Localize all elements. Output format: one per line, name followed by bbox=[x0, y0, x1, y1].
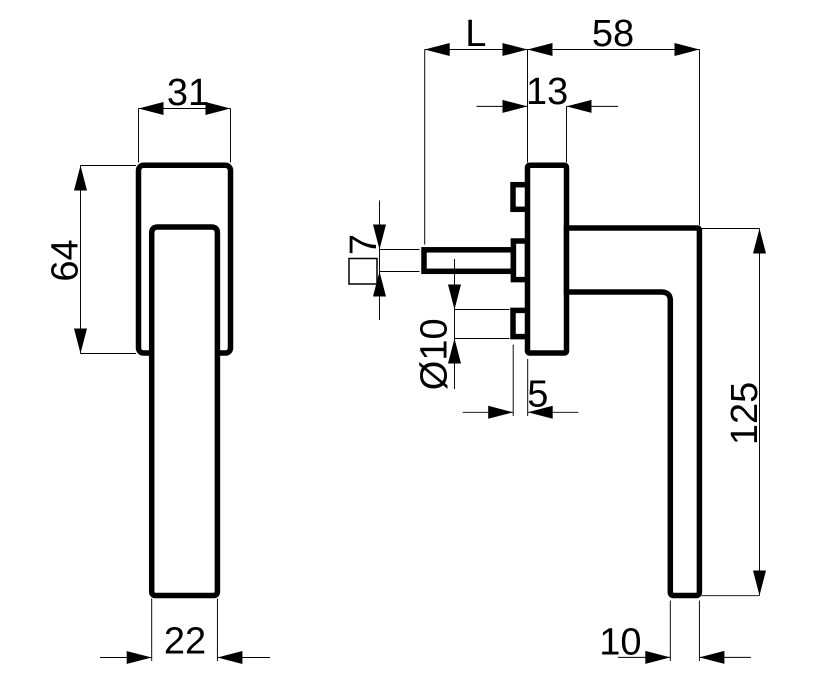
dim 10: left arrowhead bbox=[645, 651, 670, 664]
svg-text:58: 58 bbox=[592, 13, 634, 55]
dim 64: dimension line bbox=[80, 166, 82, 354]
dim 31: left extension line bbox=[138, 109, 140, 163]
dim Ø10: bottom arrowhead bbox=[448, 339, 461, 364]
dim 58: right arrowhead bbox=[675, 43, 700, 56]
svg-text:5: 5 bbox=[527, 374, 548, 416]
dim 5: right tail line bbox=[528, 411, 579, 413]
dim Ø10: dimension line vertical bbox=[454, 259, 456, 389]
svg-text:31: 31 bbox=[167, 72, 209, 114]
svg-text:L: L bbox=[465, 13, 486, 55]
dim 22: left tail line bbox=[100, 657, 152, 659]
svg-text:22: 22 bbox=[164, 621, 206, 663]
dim 22: right arrowhead bbox=[217, 651, 242, 664]
dim 64: bottom arrowhead bbox=[74, 329, 87, 354]
front view: rosette outer plate bbox=[139, 165, 231, 353]
side view: spindle bushing block bbox=[513, 241, 527, 280]
dim 22: right tail line bbox=[217, 657, 270, 659]
svg-text:7: 7 bbox=[343, 234, 385, 255]
dim 125: top extension line bbox=[702, 228, 760, 230]
dim 7: bottom arrowhead bbox=[373, 272, 386, 297]
dim 125: bottom arrowhead bbox=[753, 571, 766, 596]
dim 125: top arrowhead bbox=[753, 229, 766, 254]
dim 31: left arrowhead bbox=[139, 102, 164, 115]
dim 22: right extension line bbox=[216, 599, 218, 662]
dim 7: top extension line bbox=[380, 249, 420, 251]
dim 64: top extension line bbox=[81, 165, 137, 167]
svg-text:125: 125 bbox=[724, 382, 766, 445]
dim L: left arrowhead bbox=[425, 43, 450, 56]
dim L: right arrowhead bbox=[503, 43, 528, 56]
dim 5: left arrowhead bbox=[488, 406, 513, 419]
dim L/58/13: shared extension line at plate face bbox=[527, 50, 529, 163]
dim 5: left tail line bbox=[463, 411, 514, 413]
dim 5: right extension line bbox=[527, 359, 529, 416]
dim 7: dimension line vertical bbox=[379, 201, 381, 321]
dim Ø10: top extension line bbox=[455, 309, 510, 311]
dim 125: bottom extension line bbox=[702, 595, 760, 597]
side view: square spindle shaft bbox=[424, 250, 513, 271]
dim 10: right arrowhead bbox=[699, 651, 724, 664]
side view: bottom fixing tab bbox=[513, 310, 528, 336]
dim 64: top arrowhead bbox=[74, 166, 87, 191]
svg-text:13: 13 bbox=[526, 71, 568, 113]
dim 125: dimension line bbox=[759, 229, 761, 596]
dim 31: right arrowhead bbox=[206, 102, 231, 115]
dim 31: dimension line bbox=[139, 108, 231, 110]
dim Ø10: bottom extension line bbox=[455, 338, 510, 340]
dim 10: right tail line bbox=[699, 656, 751, 658]
dim 22: left extension line bbox=[151, 599, 153, 662]
dim 13: right arrowhead bbox=[567, 100, 592, 113]
dim 64: bottom extension line bbox=[81, 353, 137, 355]
dim 13: left tail line bbox=[477, 105, 528, 107]
dim Ø10: top arrowhead bbox=[448, 285, 461, 310]
dim 5: left extension line bbox=[512, 345, 514, 416]
dim 13: right extension line bbox=[566, 106, 568, 162]
dim L/58: shared dimension line bbox=[425, 49, 700, 51]
dim 31: right extension line bbox=[230, 109, 232, 163]
svg-text:Ø10: Ø10 bbox=[414, 318, 456, 390]
dim 13: left arrowhead bbox=[503, 100, 528, 113]
dim 22: left arrowhead bbox=[127, 651, 152, 664]
dim 13: right tail line bbox=[567, 105, 619, 107]
front view: handle grip bar bbox=[152, 227, 218, 596]
square-section symbol next to dim 7 bbox=[349, 259, 377, 285]
svg-text:10: 10 bbox=[599, 622, 641, 664]
side view: top fixing tab bbox=[513, 185, 528, 210]
svg-text:64: 64 bbox=[44, 239, 86, 281]
dim 58: left arrowhead bbox=[528, 43, 553, 56]
dim L: left extension line bbox=[424, 50, 426, 245]
side view: handle arm and grip L-profile bbox=[567, 228, 700, 596]
dim 10: left extension line bbox=[669, 601, 671, 662]
dim 5: right arrowhead bbox=[528, 406, 553, 419]
dim 7: top arrowhead bbox=[373, 225, 386, 250]
side view: rosette plate bbox=[528, 165, 567, 353]
dim 10: right extension line bbox=[698, 601, 700, 662]
dim 7: bottom extension line bbox=[380, 271, 420, 273]
dim 10: left tail line bbox=[618, 656, 670, 658]
dim 58: right extension line bbox=[699, 50, 701, 226]
